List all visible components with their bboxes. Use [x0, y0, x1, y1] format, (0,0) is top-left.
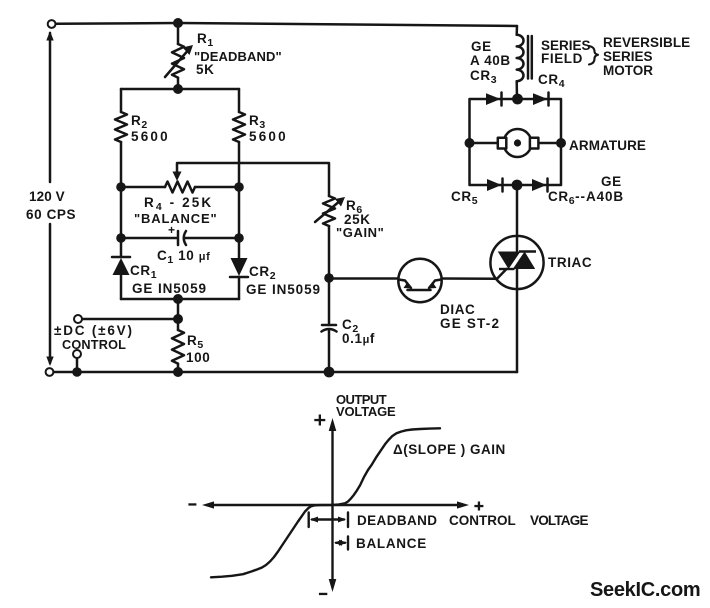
svg-text:"GAIN": "GAIN"	[336, 225, 384, 240]
svg-text:FIELD: FIELD	[541, 51, 583, 66]
svg-text:CR5: CR5	[451, 189, 478, 207]
svg-text:R5: R5	[187, 333, 204, 351]
svg-text:VOLTAGE: VOLTAGE	[530, 513, 588, 528]
svg-text:ARMATURE: ARMATURE	[569, 138, 646, 153]
svg-text:REVERSIBLE: REVERSIBLE	[603, 35, 690, 50]
svg-text:BALANCE: BALANCE	[356, 536, 427, 551]
svg-text:C1 10 μf: C1 10 μf	[157, 248, 210, 266]
svg-text:A 40B: A 40B	[470, 53, 511, 68]
svg-text:CR1: CR1	[130, 263, 157, 281]
svg-text:CR3: CR3	[470, 68, 497, 86]
svg-text:CONTROL: CONTROL	[449, 513, 516, 528]
svg-text:120 V: 120 V	[29, 189, 65, 204]
svg-text:VOLTAGE: VOLTAGE	[336, 404, 396, 419]
svg-text:±DC (±6V): ±DC (±6V)	[54, 323, 134, 338]
svg-text:GE IN5059: GE IN5059	[246, 282, 321, 297]
svg-text:"BALANCE": "BALANCE"	[134, 211, 218, 226]
svg-text:MOTOR: MOTOR	[603, 63, 653, 78]
svg-text:GE: GE	[601, 174, 622, 189]
svg-text:CR2: CR2	[249, 264, 276, 282]
svg-text:5K: 5K	[196, 62, 214, 77]
svg-text:TRIAC: TRIAC	[548, 255, 592, 270]
svg-text:5600: 5600	[249, 129, 288, 144]
svg-text:60 CPS: 60 CPS	[26, 207, 76, 222]
svg-text:100: 100	[186, 350, 210, 365]
svg-text:DEADBAND: DEADBAND	[357, 513, 437, 528]
svg-text:GE: GE	[471, 39, 492, 54]
svg-text:CR4: CR4	[538, 72, 565, 90]
svg-text:CR6--A40B: CR6--A40B	[548, 189, 624, 207]
svg-text:GE IN5059: GE IN5059	[132, 281, 207, 296]
svg-text:R1: R1	[197, 31, 214, 49]
svg-text:DIAC: DIAC	[440, 302, 475, 317]
svg-text:SeekIC.com: SeekIC.com	[590, 579, 700, 601]
svg-text:+: +	[168, 223, 176, 237]
svg-text:GE ST-2: GE ST-2	[440, 316, 500, 331]
svg-text:Δ(SLOPE ) GAIN: Δ(SLOPE ) GAIN	[393, 442, 506, 457]
svg-text:SERIES: SERIES	[603, 49, 653, 64]
svg-text:CONTROL: CONTROL	[62, 338, 126, 352]
svg-text:5600: 5600	[131, 129, 170, 144]
svg-text:0.1μf: 0.1μf	[342, 331, 375, 346]
